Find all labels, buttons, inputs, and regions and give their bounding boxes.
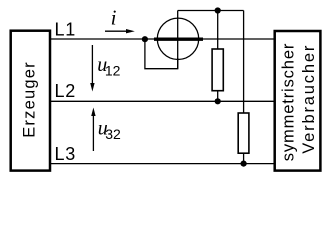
voltage arrow u12	[90, 45, 94, 92]
wattmeter U1 (circle)	[157, 18, 198, 59]
wattmeter current path (thick bar)	[154, 38, 203, 41]
node R1/L2	[215, 98, 221, 104]
svg-text:32: 32	[105, 126, 121, 142]
wattmeter vertical line	[177, 11, 179, 69]
top wire (artificial star point)	[178, 10, 244, 12]
wire L2	[51, 100, 275, 102]
wire from top wire corner to resistor R2	[243, 11, 245, 114]
node on L1 (voltage tap)	[142, 36, 148, 42]
svg-text:L3: L3	[55, 144, 77, 164]
node on top wire	[215, 7, 221, 13]
wire L1	[51, 38, 275, 40]
voltage arrow u32	[91, 108, 95, 152]
wire L3	[51, 163, 275, 165]
svg-text:12: 12	[105, 62, 121, 78]
load box (symmetrischer Verbraucher)	[275, 31, 321, 171]
wattmeter voltage tap wire	[145, 39, 178, 69]
current arrow i	[105, 29, 135, 33]
resistor R2	[238, 113, 249, 153]
wire from top wire to resistor R1	[217, 11, 219, 50]
resistor R1	[212, 49, 223, 91]
svg-text:L2: L2	[55, 81, 77, 101]
svg-text:Erzeuger: Erzeuger	[21, 61, 39, 138]
wire R2 to L3	[243, 153, 245, 163]
svg-text:i: i	[111, 6, 117, 30]
svg-text:L1: L1	[55, 20, 77, 40]
wire R1 to L2	[217, 91, 219, 102]
svg-text:symmetrischer: symmetrischer	[279, 43, 297, 161]
svg-text:Verbraucher: Verbraucher	[300, 44, 318, 154]
node R2/L3	[241, 161, 247, 167]
generator box (Erzeuger)	[11, 31, 50, 171]
